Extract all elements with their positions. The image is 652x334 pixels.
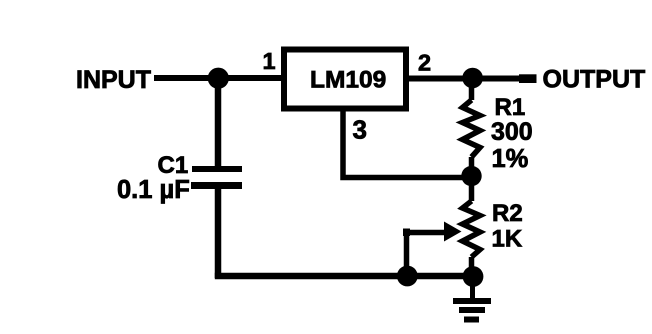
svg-text:INPUT: INPUT [76, 66, 151, 94]
svg-text:LM109: LM109 [310, 67, 386, 94]
svg-text:C1: C1 [158, 152, 189, 179]
svg-text:R1: R1 [495, 94, 526, 121]
svg-text:2: 2 [418, 50, 431, 76]
svg-text:1: 1 [263, 48, 276, 74]
svg-text:R2: R2 [492, 200, 523, 227]
svg-text:1K: 1K [492, 226, 523, 253]
svg-text:0.1 µF: 0.1 µF [117, 176, 190, 204]
svg-text:1%: 1% [492, 145, 529, 173]
svg-text:3: 3 [353, 115, 367, 145]
svg-text:OUTPUT: OUTPUT [543, 66, 646, 94]
svg-text:300: 300 [491, 118, 533, 146]
